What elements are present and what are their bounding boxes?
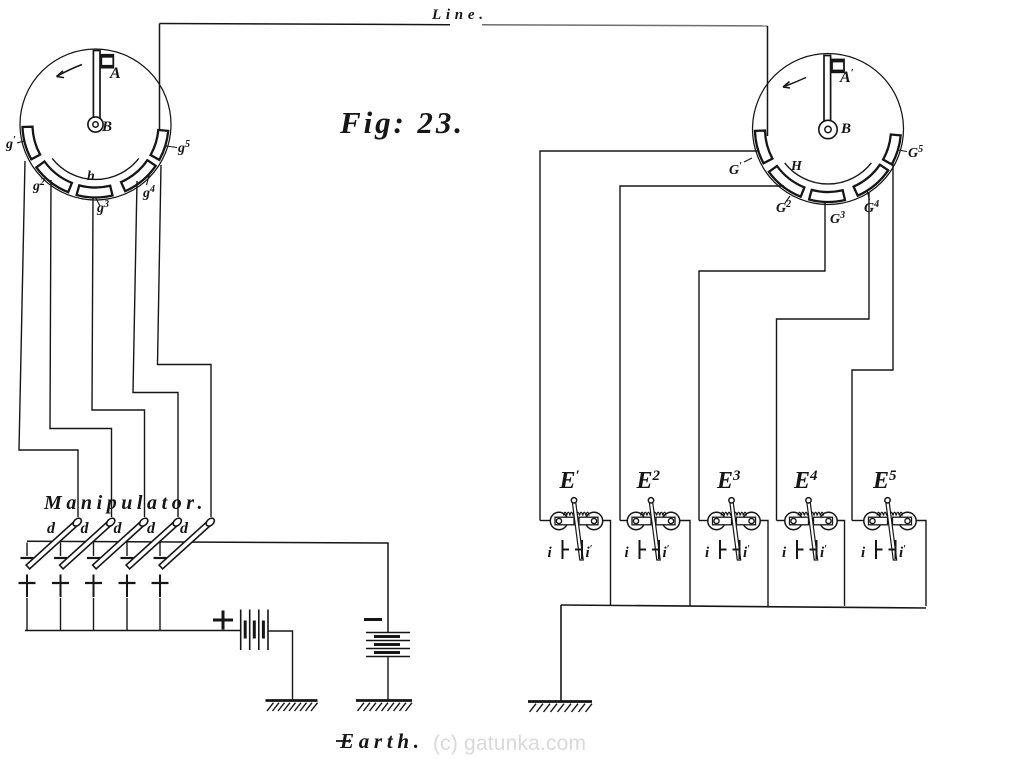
svg-text:h: h xyxy=(87,169,95,184)
wire relay bus to earth xyxy=(560,605,562,702)
relay E5 contact i xyxy=(875,540,877,559)
right dial segment G4 xyxy=(854,165,889,196)
relay E2 winding xyxy=(641,512,667,515)
relay E1 armature xyxy=(572,502,583,560)
relay E4 armature xyxy=(807,502,818,560)
key 4 wire to bus xyxy=(126,598,128,631)
relay E5 armature xyxy=(886,502,897,560)
label minus xyxy=(364,618,382,621)
svg-text:E5: E5 xyxy=(872,468,897,494)
right dial segment G3 xyxy=(809,190,845,202)
svg-text:d: d xyxy=(147,520,156,537)
svg-text:G′: G′ xyxy=(729,161,742,178)
ground relay earth xyxy=(528,700,592,703)
relay E3 contact i xyxy=(719,540,721,559)
left dial case circle xyxy=(20,49,171,200)
right dial case circle xyxy=(753,54,904,205)
relay E3 left lead xyxy=(699,520,708,522)
relay E5 right coil xyxy=(899,512,916,529)
svg-text:d: d xyxy=(47,520,56,537)
relay E1 left lead xyxy=(540,520,550,522)
wire G2 to relay E2 xyxy=(620,186,784,521)
key 3 back contact xyxy=(93,575,95,598)
relay E3 right coil xyxy=(743,512,760,529)
right dial needle flag xyxy=(832,60,844,73)
key 3 anvil contact xyxy=(87,557,100,559)
svg-text:d: d xyxy=(180,520,189,537)
relay E1 contact i1 xyxy=(575,549,582,551)
relay E1 left coil xyxy=(550,512,567,529)
key d1 lever xyxy=(26,517,83,570)
right dial segment G2 xyxy=(769,166,805,197)
svg-text:B: B xyxy=(101,119,112,135)
relay E4 left coil xyxy=(785,512,802,529)
svg-text:i′: i′ xyxy=(743,544,750,561)
svg-text:Earth.: Earth. xyxy=(339,729,420,753)
wire segment g4 to key 4 xyxy=(133,181,178,517)
key 1 anvil contact xyxy=(21,557,34,559)
wire key common to negative battery xyxy=(27,541,388,633)
svg-text:Fig: 23.: Fig: 23. xyxy=(339,105,464,140)
wire segment g5 to key 5 xyxy=(158,165,212,517)
left dial segment g5 xyxy=(151,130,169,160)
key 4 contact stub xyxy=(126,543,128,557)
relay E2 contact i xyxy=(639,540,641,559)
key 4 anvil contact xyxy=(121,557,134,559)
svg-text:G4: G4 xyxy=(864,199,879,216)
right dial segment G5 xyxy=(883,135,901,165)
label plus xyxy=(213,619,233,622)
ground negative battery xyxy=(356,699,412,702)
relay E4 winding xyxy=(798,512,824,515)
right dial segment G1 xyxy=(755,131,772,164)
svg-text:G3: G3 xyxy=(830,210,845,227)
svg-text:i′: i′ xyxy=(820,544,827,561)
wire negative battery to ground xyxy=(387,657,389,701)
left dial needle A xyxy=(93,51,100,119)
left dial hub ring h xyxy=(52,158,139,179)
svg-text:(c) gatunka.com: (c) gatunka.com xyxy=(433,732,587,755)
left dial needle flag xyxy=(101,55,113,68)
wire battery bus xyxy=(25,630,241,632)
left dial segment g4 xyxy=(121,160,156,191)
key d4 lever xyxy=(126,517,183,570)
relay E4 right coil xyxy=(820,512,837,529)
relay E1 winding xyxy=(564,512,590,515)
relay E5 winding xyxy=(877,512,903,515)
relay E5 contact i1 xyxy=(889,549,896,551)
right dial hub B xyxy=(819,120,837,138)
wire G3 to relay E3 xyxy=(699,201,825,521)
wire Line left drop to dial xyxy=(159,24,161,134)
key d2 lever xyxy=(59,517,116,570)
svg-text:g4: g4 xyxy=(142,184,155,201)
wire battery to ground xyxy=(268,631,293,701)
relay E3 armature xyxy=(730,502,741,560)
svg-text:G5: G5 xyxy=(908,144,923,161)
svg-text:i′: i′ xyxy=(899,544,906,561)
relay E4 left lead xyxy=(777,520,785,522)
svg-text:A′: A′ xyxy=(839,67,854,86)
right dial needle A' xyxy=(824,56,831,122)
svg-text:H: H xyxy=(790,159,803,174)
relay E3 right lead xyxy=(760,521,768,607)
key 5 anvil contact xyxy=(154,557,167,559)
svg-text:i: i xyxy=(705,545,710,561)
svg-text:g5: g5 xyxy=(177,139,190,156)
wire relay bus xyxy=(561,605,926,608)
key 1 contact stub xyxy=(26,543,28,557)
key 5 back contact xyxy=(159,575,161,598)
relay E2 contact i1 xyxy=(652,549,659,551)
wire G1 to relay E1 xyxy=(540,151,760,521)
right dial hub ring H xyxy=(785,163,872,184)
ground left battery xyxy=(266,699,318,702)
key 3 wire to bus xyxy=(93,598,95,631)
key 1 wire to bus xyxy=(26,598,28,631)
svg-text:g′: g′ xyxy=(5,135,16,152)
battery negative (vertical cells) xyxy=(366,632,410,634)
svg-text:i′: i′ xyxy=(586,544,593,561)
relay E2 left coil xyxy=(627,512,644,529)
relay E2 right lead xyxy=(680,521,690,607)
relay E1 right lead xyxy=(603,521,611,607)
relay E1 right coil xyxy=(585,512,602,529)
key 2 anvil contact xyxy=(54,557,67,559)
wire segment g2 to key 2 xyxy=(50,180,112,517)
right dial rotation arrow xyxy=(783,78,806,88)
svg-text:i: i xyxy=(861,545,866,561)
wire G5 to relay E5 xyxy=(852,162,893,521)
left dial segment g2 xyxy=(36,162,72,193)
svg-text:A: A xyxy=(109,65,121,82)
wire Line (top horizontal) xyxy=(160,24,451,25)
key 5 contact stub xyxy=(159,543,161,557)
left dial segment g1 xyxy=(23,127,41,160)
left dial segment g3 xyxy=(77,185,113,197)
label Earth xyxy=(336,740,351,742)
key 5 wire to bus xyxy=(159,598,161,631)
relay E3 winding xyxy=(721,512,747,515)
relay E2 armature xyxy=(649,502,660,560)
battery positive (horizontal cells) xyxy=(240,610,242,651)
svg-text:Line.: Line. xyxy=(431,7,484,23)
key d3 lever xyxy=(92,517,149,570)
wire Line right drop to dial xyxy=(767,26,769,136)
relay E5 right lead xyxy=(916,521,926,607)
svg-text:g2: g2 xyxy=(32,177,45,194)
svg-text:i: i xyxy=(782,545,787,561)
wire G4 to relay E4 xyxy=(777,193,870,521)
svg-text:E3: E3 xyxy=(716,468,741,494)
relay E2 left lead xyxy=(620,520,627,522)
svg-text:d: d xyxy=(81,520,90,537)
relay E3 left coil xyxy=(708,512,725,529)
relay E3 contact i1 xyxy=(733,549,740,551)
svg-text:B: B xyxy=(840,121,851,137)
relay E1 contact i xyxy=(562,540,564,559)
wire segment g3 to key 3 xyxy=(92,198,145,517)
key 4 back contact xyxy=(126,575,128,598)
svg-text:Manipulator.: Manipulator. xyxy=(43,492,204,514)
key 2 wire to bus xyxy=(60,598,62,631)
key 2 back contact xyxy=(60,575,62,598)
svg-text:d: d xyxy=(114,520,123,537)
left dial rotation arrow xyxy=(57,65,83,77)
svg-text:G2: G2 xyxy=(776,199,791,216)
relay E5 left lead xyxy=(852,520,864,522)
wire segment g1 to key 1 xyxy=(19,161,78,517)
svg-text:i′: i′ xyxy=(663,544,670,561)
relay E4 right lead xyxy=(837,521,844,607)
svg-text:E′: E′ xyxy=(559,468,580,494)
svg-text:E4: E4 xyxy=(793,468,818,494)
left dial hub B xyxy=(88,117,103,132)
relay E4 contact i1 xyxy=(810,549,817,551)
relay E5 left coil xyxy=(864,512,881,529)
svg-text:i: i xyxy=(625,545,630,561)
key d5 lever xyxy=(159,517,216,570)
key 1 back contact xyxy=(26,575,28,598)
relay E4 contact i xyxy=(796,540,798,559)
svg-text:i: i xyxy=(548,545,553,561)
key 3 contact stub xyxy=(93,543,95,557)
relay E2 right coil xyxy=(662,512,679,529)
svg-text:E2: E2 xyxy=(636,468,661,494)
key 2 contact stub xyxy=(60,543,62,557)
